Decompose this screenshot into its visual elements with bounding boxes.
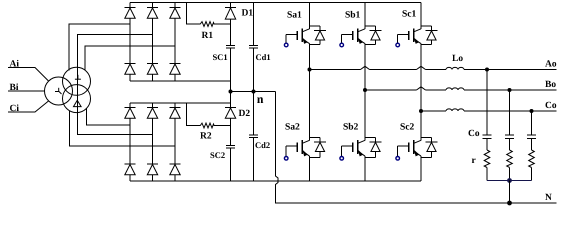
label SC1 — [213, 54, 227, 60]
transformer T1 primary winding circle (wye) — [45, 77, 73, 105]
wire: filter bus drop to N — [509, 181, 511, 204]
wire: upper bridge leg 1 — [129, 3, 131, 82]
node: N line junction dot — [507, 201, 512, 206]
label Co capacitor — [469, 130, 480, 136]
label Bo — [545, 81, 556, 87]
diode upper bridge top 2 — [147, 8, 158, 19]
wire: phase B output rail — [365, 87, 557, 90]
label Sc2 — [401, 123, 414, 129]
wire: tertiary to lower bridge phase 2 — [78, 113, 153, 135]
wire: phase A output rail — [310, 66, 557, 69]
transistor Sc2 — [396, 111, 438, 181]
capacitor Co branch B — [505, 90, 514, 150]
label r — [472, 159, 476, 164]
wire: DC+ top rail — [130, 2, 421, 4]
node: junction dot mid bus at SC column — [229, 90, 233, 94]
node: phase A leg junction — [308, 68, 312, 72]
label Sc1 — [403, 10, 416, 16]
diode lower bridge bottom 1 — [125, 164, 136, 175]
wire: lower bridge leg 2 — [152, 103, 154, 181]
capacitor SC2 — [226, 126, 235, 182]
resistor r branch C — [529, 150, 535, 181]
diode lower bridge top 3 — [170, 108, 181, 119]
wire: tertiary to lower bridge phase 1 — [87, 108, 131, 125]
wire: input line Ci — [8, 101, 49, 112]
wire: filter common bus — [487, 180, 532, 182]
capacitor SC1 — [226, 24, 235, 92]
transformer T1 tertiary winding circle (delta) — [63, 85, 91, 113]
label R1 — [202, 32, 213, 38]
capacitor Cd1 — [249, 3, 258, 92]
wire: lower bridge top bus — [130, 102, 231, 104]
wire: secondary to upper bridge phase 1 — [69, 24, 130, 71]
node: filter bus junction dot — [507, 178, 512, 183]
wire: secondary to upper bridge phase 2 — [78, 35, 153, 113]
label n — [257, 97, 263, 103]
node: filter tap C — [530, 109, 534, 113]
label Ai — [10, 60, 19, 67]
resistor r branch B — [507, 150, 513, 181]
label D2 — [239, 110, 250, 116]
transistor Sa2 — [284, 70, 326, 182]
wire: upper bridge leg 2 — [152, 3, 154, 82]
wire: input line Bi — [8, 90, 45, 92]
wire: DC mid bus — [231, 91, 276, 93]
diode D1 — [225, 3, 236, 25]
diode lower bridge bottom 3 — [170, 164, 181, 175]
node: filter tap B — [508, 88, 512, 92]
label Sa1 — [288, 11, 302, 17]
wire: lower bridge leg 3 — [174, 103, 176, 181]
inductor Lo phase C — [446, 109, 464, 111]
label N — [545, 194, 552, 200]
label Cd2 — [255, 142, 269, 148]
label Sb1 — [346, 11, 360, 18]
resistor R1 — [187, 3, 231, 27]
resistor R2 — [187, 103, 231, 128]
label Ci — [10, 104, 19, 111]
transistor Sa1 — [284, 3, 326, 70]
transformer tertiary delta symbol — [74, 100, 82, 106]
wire: tertiary to lower bridge phase 3 — [70, 111, 176, 147]
wire: secondary to upper bridge phase 3 — [85, 46, 175, 71]
wire: neutral from DC midpoint down and to N output — [276, 92, 557, 204]
label SC2 — [211, 152, 225, 158]
diode upper bridge bottom 1 — [125, 64, 136, 75]
label Cd1 — [256, 54, 270, 60]
diode lower bridge top 2 — [147, 108, 158, 119]
diode upper bridge top 1 — [125, 8, 136, 19]
node: filter tap A — [485, 68, 489, 72]
label Sb2 — [344, 123, 358, 130]
diode lower bridge top 1 — [125, 108, 136, 119]
label Lo — [452, 55, 463, 61]
label R2 — [200, 132, 211, 138]
transformer secondary wye symbol — [75, 75, 81, 79]
label Ao — [545, 60, 556, 66]
transformer primary wye symbol — [55, 88, 62, 94]
transistor Sb1 — [340, 3, 382, 91]
label Bi — [10, 83, 19, 90]
node: phase C leg junction — [419, 109, 423, 113]
wire: input line Ai — [8, 68, 49, 82]
diode upper bridge top 3 — [170, 8, 181, 19]
label Co output — [546, 102, 557, 108]
label Sa2 — [286, 123, 300, 129]
wire: DC- bottom rail with hop over neutral — [130, 180, 421, 182]
label D1 — [242, 9, 253, 15]
wire: upper bridge leg 3 — [174, 3, 176, 82]
node: junction dot mid bus at Cd column — [252, 90, 256, 94]
transistor Sc1 — [396, 3, 438, 112]
node: phase B leg junction — [363, 88, 367, 92]
inductor Lo phase B — [446, 88, 464, 90]
diode upper bridge bottom 3 — [170, 64, 181, 75]
wire: upper bridge bottom bus to mid node — [130, 81, 231, 92]
wire: lower bridge leg 1 — [129, 103, 131, 181]
capacitor Cd2 — [249, 92, 258, 182]
resistor r branch A — [484, 150, 490, 181]
inductor Lo phase A — [446, 67, 464, 69]
transformer T1 secondary winding circle (wye) — [63, 67, 91, 95]
transistor Sb2 — [340, 90, 382, 181]
diode lower bridge bottom 2 — [147, 164, 158, 175]
capacitor Co branch C — [527, 111, 536, 150]
capacitor Co branch A — [483, 70, 492, 151]
wire: phase C output rail — [421, 110, 557, 112]
diode D2 — [225, 92, 236, 126]
diode upper bridge bottom 2 — [147, 64, 158, 75]
